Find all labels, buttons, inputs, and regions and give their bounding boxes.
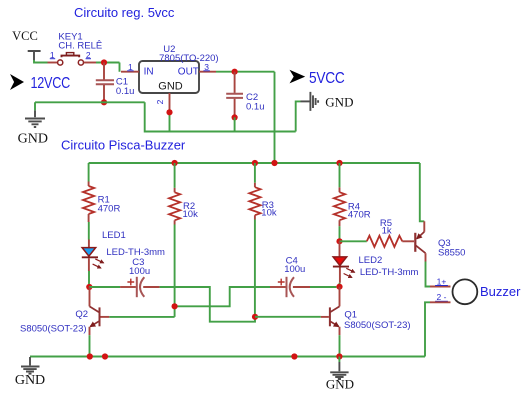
LED1 LED-TH-3mm	[82, 230, 165, 271]
svg-text:S8050(SOT-23): S8050(SOT-23)	[20, 324, 87, 335]
wire top supply bus	[89, 162, 420, 164]
transistor Q1 S8050(SOT-23)	[321, 287, 411, 336]
transistor Q3 S8550	[415, 163, 465, 262]
svg-text:GND: GND	[325, 95, 353, 110]
svg-text:1+: 1+	[437, 276, 447, 286]
svg-text:IN: IN	[144, 67, 154, 78]
pin 1	[121, 71, 139, 73]
junction Q2 emitter	[87, 353, 93, 359]
capacitor C2 0.1u	[226, 72, 264, 118]
ground GND (bottom-center)	[326, 357, 354, 392]
buzzer LS1	[430, 276, 521, 304]
wire ground rail	[30, 356, 425, 358]
svg-text:12VCC: 12VCC	[31, 75, 71, 92]
junction bus R2	[172, 160, 178, 166]
wire R3 column	[254, 163, 256, 317]
svg-text:10k: 10k	[261, 208, 277, 219]
svg-text:0.1u: 0.1u	[116, 86, 134, 97]
svg-text:1k: 1k	[382, 226, 392, 237]
capacitor C3 100u	[89, 257, 160, 297]
wire C2 to gnd rail	[234, 117, 236, 131]
wire VCC to switch	[34, 60, 48, 63]
svg-text:S8550: S8550	[438, 248, 465, 259]
svg-text:LED2: LED2	[359, 255, 383, 266]
svg-text:Circuito Pisca-Buzzer: Circuito Pisca-Buzzer	[61, 138, 186, 153]
power flag VCC	[12, 29, 40, 60]
svg-text:S8050(SOT-23): S8050(SOT-23)	[344, 320, 411, 331]
transistor Q2 S8050(SOT-23)	[20, 287, 109, 335]
wire Q1 emitter to rail	[339, 335, 341, 356]
ground GND (top-left)	[18, 110, 48, 146]
svg-text:Buzzer: Buzzer	[480, 284, 521, 299]
wire C3 right to Q1 base node	[160, 287, 255, 322]
wire R4 column	[339, 163, 341, 241]
5VCC flag	[290, 70, 345, 87]
junction C4 left / R2 column	[172, 303, 178, 309]
capacitor C1 0.1u	[96, 63, 135, 103]
junction bus R4	[336, 160, 342, 166]
svg-text:470R: 470R	[348, 210, 371, 221]
svg-text:VCC: VCC	[12, 29, 38, 43]
wire Q2 emitter to rail	[89, 335, 91, 356]
wire node to U2 pin1	[104, 63, 120, 72]
ground GND (sideways, 5V side)	[301, 92, 354, 111]
junction rail left	[102, 353, 108, 359]
wire buzzer minus to rail	[425, 302, 430, 356]
svg-text:2 -: 2 -	[437, 292, 447, 302]
svg-text:10k: 10k	[183, 209, 199, 220]
12VCC flag	[10, 74, 70, 92]
junction Q1 base node	[252, 314, 258, 320]
junction U2 pin2	[166, 109, 172, 115]
svg-text:LED-TH-3mm: LED-TH-3mm	[360, 267, 419, 278]
wire Q3 collector to buzzer	[426, 262, 431, 287]
resistor R1 470R	[83, 182, 120, 223]
resistor R3 10k	[249, 183, 277, 220]
svg-text:LED1: LED1	[102, 230, 126, 241]
junction C1 bottom	[101, 99, 107, 105]
svg-text:Q2: Q2	[75, 309, 88, 320]
svg-text:GND: GND	[18, 132, 48, 147]
svg-text:GND: GND	[326, 377, 354, 392]
resistor R5 1k	[340, 218, 415, 247]
svg-text:Circuito reg. 5vcc: Circuito reg. 5vcc	[74, 5, 175, 20]
svg-text:GND: GND	[15, 373, 45, 388]
resistor R2 10k	[169, 188, 198, 225]
svg-text:OUT: OUT	[178, 67, 199, 78]
resistor R4 470R	[334, 187, 371, 226]
svg-text:100u: 100u	[284, 264, 305, 275]
svg-text:2: 2	[155, 99, 165, 104]
wire LED1 to node	[88, 271, 90, 287]
junction rail right	[291, 353, 297, 359]
regulator U2 7805	[121, 44, 219, 113]
pin 2	[169, 93, 171, 112]
wire OUT to 5V node	[216, 72, 275, 163]
svg-text:CH. RELÊ: CH. RELÊ	[58, 41, 102, 52]
switch KEY1 CH. RELE	[48, 32, 103, 66]
LED2 LED-TH-3mm	[333, 241, 419, 282]
wire U2 pin2 to gnd rail	[169, 112, 171, 131]
svg-text:7805(TO-220): 7805(TO-220)	[159, 53, 219, 64]
wire R1 to LED1	[88, 222, 90, 240]
wire Q1 base	[255, 316, 321, 318]
svg-text:470R: 470R	[98, 204, 121, 215]
wire switch to node	[96, 62, 120, 64]
pin 3	[199, 71, 216, 73]
svg-text:100u: 100u	[129, 266, 150, 277]
svg-text:5VCC: 5VCC	[309, 70, 345, 87]
junction LED2/C4/Q1 collector	[336, 284, 342, 290]
wire to sideways ground	[296, 101, 301, 131]
junction Q2 collector node	[86, 284, 92, 290]
junction Q1 emitter / gnd	[336, 353, 342, 359]
junction node C1 top	[101, 59, 107, 65]
svg-text:Q1: Q1	[344, 310, 357, 321]
ground wire row (12V side)	[35, 102, 296, 131]
svg-text:GND: GND	[158, 81, 183, 93]
junction C2 bottom	[232, 114, 238, 120]
capacitor C4 100u	[175, 256, 337, 307]
svg-text:0.1u: 0.1u	[246, 102, 265, 113]
wire R2 column	[109, 163, 174, 317]
junction R4/LED2/R5 node	[336, 238, 342, 244]
junction bus R3	[252, 160, 258, 166]
wire R1 column top	[88, 163, 90, 182]
junction C2 top	[232, 69, 238, 75]
junction bus 5V feed	[271, 160, 277, 166]
ground GND (bottom-left)	[15, 357, 45, 388]
